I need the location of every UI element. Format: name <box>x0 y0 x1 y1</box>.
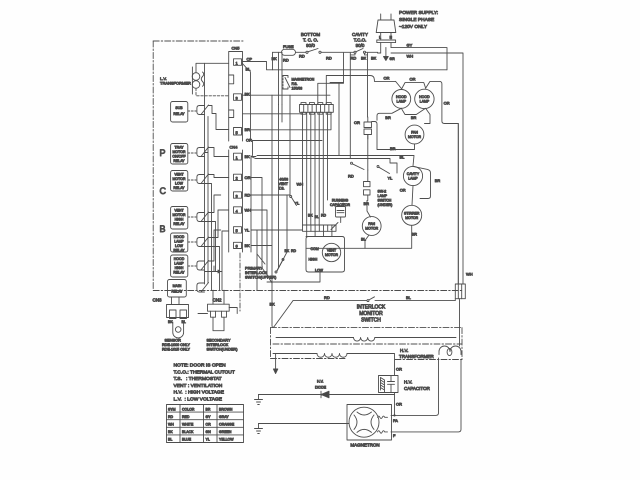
hood lamp 1 <box>392 90 411 109</box>
wire into interlock monitor <box>272 301 293 328</box>
svg-text:HOOD: HOOD <box>174 257 185 261</box>
svg-text:RD: RD <box>291 249 297 253</box>
junction FA <box>393 414 395 416</box>
svg-text:H.V.: H.V. <box>317 380 324 384</box>
svg-text:YL: YL <box>295 201 301 206</box>
svg-text:OR: OR <box>245 175 251 180</box>
wire slot4 to strip1 <box>243 113 303 115</box>
CN4 pin 2 <box>234 174 242 180</box>
svg-text:T.C.O.: T.C.O. <box>354 38 367 43</box>
HV dashdot left <box>270 328 272 359</box>
svg-text:OR: OR <box>206 423 212 427</box>
svg-text:MONITOR: MONITOR <box>359 311 383 317</box>
wire YL cn4-5 horizontal <box>251 230 303 291</box>
connector 2pin hood feed <box>364 117 372 139</box>
hood lamp 2 <box>415 89 434 108</box>
cavity lamp L3 <box>403 166 422 185</box>
svg-text:SWITCH: SWITCH <box>378 199 392 203</box>
svg-text:BK: BK <box>245 92 251 97</box>
svg-text:VENT: VENT <box>327 249 337 253</box>
CN5 slot 4 <box>229 110 234 118</box>
chassis arrow ground <box>273 354 277 374</box>
svg-text:GN: GN <box>206 430 212 434</box>
long wire y155.5 <box>257 156 414 167</box>
hood high relay contact <box>197 261 220 274</box>
svg-text:MOTOR: MOTOR <box>405 216 418 220</box>
svg-text:MOTOR: MOTOR <box>365 227 378 231</box>
connector strip CN1 <box>300 103 334 115</box>
interlock monitor switch blade <box>367 297 375 302</box>
wire OR cn4-2 horizontal <box>251 178 262 269</box>
svg-text:RELAY: RELAY <box>173 249 185 253</box>
CN5 pin 5 <box>234 128 242 136</box>
wire CN5 pin1 to power line <box>243 62 448 70</box>
wire cavity TCO legs <box>350 53 367 159</box>
svg-text:RED: RED <box>182 415 190 419</box>
ground 2 <box>255 424 263 434</box>
svg-text:ORANGE: ORANGE <box>219 423 235 427</box>
svg-text:CAVITY: CAVITY <box>407 172 420 176</box>
dashed link vent high relay <box>188 216 196 218</box>
wire fuse-left vertical pair <box>279 52 283 104</box>
wire OR right bus down <box>457 124 459 285</box>
svg-text:YL: YL <box>245 228 251 233</box>
svg-text:C: C <box>160 186 167 196</box>
fan motor M1 <box>405 125 424 144</box>
svg-text:OR: OR <box>396 367 402 372</box>
svg-text:CAPACITOR: CAPACITOR <box>404 386 431 391</box>
wire fan motor bottom <box>372 122 415 150</box>
HV dashdot top <box>271 327 463 329</box>
fuse F1 <box>282 44 296 56</box>
wires into CN2 top <box>198 290 237 313</box>
HV capacitor C2 <box>379 376 399 393</box>
CN4 pin 4 <box>234 207 242 213</box>
wire connector down <box>367 135 369 171</box>
sensor TH1 <box>173 322 184 338</box>
svg-text:LAMP: LAMP <box>397 100 407 104</box>
svg-text:T.S.: T.S. <box>279 187 285 191</box>
svg-text:HOOD: HOOD <box>396 95 407 99</box>
svg-text:SINGLE PHASE: SINGLE PHASE <box>399 17 434 23</box>
wire BL diagonal from pin1 <box>243 64 251 141</box>
svg-text:DIODE: DIODE <box>315 386 327 390</box>
svg-text:RELAY: RELAY <box>173 159 185 163</box>
wire left verticals down <box>279 105 283 269</box>
chassis dash-dot border left <box>152 41 154 291</box>
wire tray contact to CN4 pin1 <box>208 148 229 157</box>
svg-text:RD: RD <box>299 54 305 59</box>
vent low relay contact <box>197 174 209 184</box>
svg-text:BR: BR <box>390 146 396 151</box>
svg-text:RD: RD <box>321 214 327 218</box>
svg-text:LOW: LOW <box>175 182 184 186</box>
svg-text:MOTOR: MOTOR <box>173 213 186 217</box>
svg-text:BK: BK <box>371 56 377 61</box>
svg-text:GRAY: GRAY <box>219 415 229 419</box>
svg-text:BR: BR <box>412 232 418 237</box>
svg-text:NOTE: DOOR IS OPEN: NOTE: DOOR IS OPEN <box>174 363 227 369</box>
svg-text:LAMP: LAMP <box>174 262 184 266</box>
svg-text:CN5: CN5 <box>232 46 241 51</box>
svg-text:OR: OR <box>384 76 390 81</box>
svg-text:LOW: LOW <box>315 268 324 272</box>
svg-text:RUNNING: RUNNING <box>332 199 349 203</box>
svg-text:RD: RD <box>351 56 357 61</box>
dashed link hood high relay <box>188 265 196 267</box>
tray relay contact <box>197 147 209 157</box>
dashed link sub relay <box>188 110 196 112</box>
40/58 switch blade <box>290 196 297 206</box>
svg-text:BR: BR <box>245 127 251 132</box>
svg-text:HOOD: HOOD <box>174 235 185 239</box>
svg-text:WH: WH <box>466 272 473 277</box>
wire BL extend <box>252 141 254 156</box>
svg-text:SWITCH: SWITCH <box>361 317 381 323</box>
CN4 pin 6 <box>234 242 242 248</box>
svg-text:HOOD: HOOD <box>419 95 430 99</box>
wires main relay to CN3 <box>172 297 180 305</box>
long wire y158.5 <box>251 157 397 174</box>
CN4 pin 5 <box>234 227 242 233</box>
svg-text:BR: BR <box>435 178 441 183</box>
svg-text:BR: BR <box>364 201 370 206</box>
svg-text:FAN: FAN <box>368 222 375 226</box>
right edge connector <box>455 284 465 299</box>
HV dashdot bottom <box>271 359 463 360</box>
svg-text:CN4: CN4 <box>230 144 239 149</box>
HV dashdot mid <box>273 343 462 345</box>
plug ground <box>384 48 396 62</box>
fan motor M3 <box>362 217 381 236</box>
chassis dash-dot border top <box>153 40 243 42</box>
svg-text:OR: OR <box>400 188 406 193</box>
wires strip2 to vent box <box>307 231 332 236</box>
CN2 pin b <box>222 311 227 317</box>
svg-text:VENT: VENT <box>279 182 289 186</box>
wire bundle v5 <box>318 112 320 225</box>
wire fan motor3 top <box>367 201 371 218</box>
svg-text:SWITCH(UPPER): SWITCH(UPPER) <box>245 275 277 280</box>
vent motor M4 <box>322 243 340 261</box>
wire box left of cavity tco <box>330 83 344 156</box>
svg-text:T.C.O.: THERMAL CUTOUT: T.C.O.: THERMAL CUTOUT <box>174 369 235 375</box>
svg-text:LAMP: LAMP <box>378 194 388 198</box>
svg-text:MAGNETRON: MAGNETRON <box>292 78 315 82</box>
ladder vertical d <box>205 247 220 291</box>
wire bundle v2 <box>306 112 308 225</box>
CN5 pin 3 <box>234 94 242 101</box>
wire stirrer bottom <box>306 225 412 248</box>
svg-text:COM: COM <box>311 247 319 251</box>
wires CN2 pins down <box>213 317 224 331</box>
svg-text:WH: WH <box>297 182 304 187</box>
svg-text:T. C. O.: T. C. O. <box>303 38 318 43</box>
svg-text:OR: OR <box>410 77 416 82</box>
svg-text:WHITE: WHITE <box>182 423 194 427</box>
svg-text:BL: BL <box>400 154 406 159</box>
svg-text:SWITCH(UNDER): SWITCH(UNDER) <box>207 348 239 352</box>
svg-text:RELAY: RELAY <box>171 290 183 294</box>
ladder vertical c <box>205 222 216 272</box>
svg-text:BR: BR <box>411 115 417 120</box>
svg-text:40/58: 40/58 <box>279 178 288 182</box>
svg-text:90/0: 90/0 <box>306 43 315 48</box>
svg-text:OR: OR <box>444 101 450 106</box>
connector CN4 strip <box>229 150 243 252</box>
svg-text:P: P <box>160 148 166 158</box>
wire cavity bottom to stirrer <box>412 186 413 206</box>
interlock monitor wire RD <box>293 300 367 302</box>
sub relay contact <box>197 105 209 115</box>
wire cap bottom to FA <box>394 393 396 416</box>
svg-text:CN2: CN2 <box>213 298 222 303</box>
magnetron F.S. switch <box>283 76 290 90</box>
svg-text:LAMP: LAMP <box>420 100 430 104</box>
wire vent box low exit <box>267 272 320 282</box>
svg-text:MAGNETRON: MAGNETRON <box>350 443 379 448</box>
vent motor high relay K4 <box>171 207 188 230</box>
dashed link hood low relay <box>188 241 196 243</box>
wire BK cn4-1 horizontal <box>251 156 256 253</box>
connector CN5 strip <box>229 52 243 142</box>
svg-text:INTERLOCK: INTERLOCK <box>357 304 386 310</box>
svg-text:RD: RD <box>324 295 330 300</box>
svg-text:OR: OR <box>354 120 360 125</box>
wire bundle v1 <box>302 112 304 225</box>
wire WH plug to right edge <box>378 53 464 284</box>
interlock monitor wire BL <box>375 299 455 301</box>
HV diode D1 <box>321 391 329 398</box>
svg-text:RELAY: RELAY <box>173 112 185 116</box>
wire vent high contact to CN4 pin3 <box>208 195 221 213</box>
wire lamp1 bottom left leg <box>377 108 401 120</box>
lamp switch RD blade <box>348 162 364 178</box>
wire color table <box>167 405 244 443</box>
filament line with coil <box>276 337 456 339</box>
svg-text:H.V. : HIGH VOLTAGE: H.V. : HIGH VOLTAGE <box>174 390 225 396</box>
svg-text:~120V ONLY: ~120V ONLY <box>399 24 428 30</box>
svg-text:SENSOR: SENSOR <box>165 338 182 343</box>
svg-text:L.V. : LOW VOLTAGE: L.V. : LOW VOLTAGE <box>174 396 223 402</box>
vent motor low relay K3 <box>171 171 188 192</box>
wire bundle v4 <box>314 112 316 225</box>
svg-text:RELAY: RELAY <box>173 186 185 190</box>
svg-text:SYM: SYM <box>168 407 176 411</box>
wire bundle v6 <box>322 112 324 213</box>
svg-text:FAN: FAN <box>411 131 418 135</box>
running capacitor C1 <box>331 203 346 230</box>
vent high relay contact <box>197 212 209 222</box>
wire y83 to strip <box>318 53 344 105</box>
L.V. transformer T1 <box>192 67 204 94</box>
cavity TCO switch <box>354 49 366 54</box>
ladder vertical b <box>205 184 212 291</box>
svg-text:OR: OR <box>396 402 402 407</box>
CN2 pin a <box>211 311 216 317</box>
svg-text:FA: FA <box>393 418 398 423</box>
wire RD fan to blade <box>277 195 287 271</box>
svg-text:BR: BR <box>206 407 211 411</box>
svg-text:WH: WH <box>168 423 174 427</box>
bottom TCO switch <box>306 49 321 54</box>
svg-text:BK: BK <box>245 154 251 159</box>
vent motor box <box>306 237 345 273</box>
svg-text:RDE-1015 ONLY: RDE-1015 ONLY <box>162 348 191 352</box>
HV primary line <box>273 353 317 355</box>
svg-text:TRAY: TRAY <box>174 146 184 150</box>
chassis dash-dot vertical near CN2 <box>239 253 241 311</box>
wire GY <box>391 48 447 70</box>
svg-text:OR: OR <box>246 138 252 143</box>
svg-text:HIGH: HIGH <box>175 266 184 270</box>
svg-text:150/63: 150/63 <box>292 87 303 91</box>
wire hood low contact to CN4 pin4 <box>208 210 229 238</box>
svg-text:MOTOR: MOTOR <box>408 135 421 139</box>
svg-text:SECONDARY: SECONDARY <box>207 339 231 343</box>
svg-text:BK: BK <box>245 243 251 248</box>
svg-text:BOTTOM: BOTTOM <box>301 32 320 37</box>
svg-text:BL: BL <box>406 295 412 300</box>
connector CN3 body <box>167 305 189 318</box>
svg-text:H.V.: H.V. <box>404 380 412 385</box>
magnetron circle <box>349 407 379 437</box>
connector strip CN6 <box>303 225 337 231</box>
wire y75.5 strip to hood lamps <box>326 76 395 105</box>
svg-text:YL: YL <box>206 438 210 442</box>
wire transformer mid leg to FA <box>395 358 439 415</box>
svg-text:RELAY: RELAY <box>173 271 185 275</box>
svg-text:BK: BK <box>308 214 313 218</box>
svg-text:90/0: 90/0 <box>356 43 365 48</box>
svg-text:MAIN: MAIN <box>173 284 182 288</box>
svg-text:RD: RD <box>348 174 354 179</box>
HV secondary coil <box>439 346 461 355</box>
wire OR horizontal <box>253 140 323 142</box>
svg-text:RD: RD <box>168 415 174 419</box>
wire sub contact to pin5 <box>208 106 229 130</box>
wire lamp1 top to lamp2 top <box>401 83 425 90</box>
svg-text:BROWN: BROWN <box>219 407 233 411</box>
svg-text:VENT : VENTILATION: VENT : VENTILATION <box>174 383 223 389</box>
svg-text:CAVITY: CAVITY <box>352 32 368 37</box>
wire pin3 long horizontal <box>243 94 331 96</box>
svg-text:LAMP: LAMP <box>408 177 418 181</box>
svg-text:HIGH: HIGH <box>175 218 184 222</box>
svg-text:BL: BL <box>168 438 172 442</box>
wire fuse left down <box>272 52 274 70</box>
svg-text:COLOR: COLOR <box>182 407 195 411</box>
svg-text:INTERLOCK: INTERLOCK <box>207 343 229 347</box>
CN3 pin b <box>180 310 187 319</box>
wire lamp1 bottom to lamp2 bottom <box>401 108 425 114</box>
svg-text:GY: GY <box>407 42 413 47</box>
ladder vertical e <box>221 272 223 291</box>
primary interlock switch blade <box>275 259 284 274</box>
svg-text:GR: GR <box>390 57 396 61</box>
magnetron anode vanes <box>354 412 374 432</box>
svg-text:BL: BL <box>315 215 319 219</box>
svg-text:SUB: SUB <box>175 106 183 110</box>
wire BK plug-left down-left <box>377 51 379 53</box>
svg-text:LAMP: LAMP <box>174 240 184 244</box>
svg-text:BK: BK <box>361 56 367 61</box>
wire into hood lamp1 top <box>396 81 402 88</box>
wire FA into magnetron <box>391 414 395 416</box>
svg-text:GY: GY <box>206 415 212 419</box>
tray motor relay K2 <box>171 144 188 165</box>
ground 1 <box>255 395 263 405</box>
wire BR pin5 horizontal <box>251 112 331 130</box>
hood low relay contact <box>197 237 209 247</box>
sub relay K1 <box>171 102 188 123</box>
lamp switch YL blade <box>377 166 393 181</box>
stirrer motor M2 <box>402 205 422 225</box>
HV dashdot right <box>461 328 463 360</box>
CN4 pin 1 <box>234 153 242 160</box>
chassis dash-dot border bottom <box>153 290 462 292</box>
svg-text:RELAY: RELAY <box>173 222 185 226</box>
wire bundle v3 <box>310 112 312 225</box>
svg-text:VENT: VENT <box>174 173 184 177</box>
svg-text:ON/OFF: ON/OFF <box>172 155 185 159</box>
svg-text:HIGH: HIGH <box>309 258 318 262</box>
svg-text:VENT: VENT <box>174 209 184 213</box>
svg-text:STIRRER: STIRRER <box>404 211 420 215</box>
plug P1 <box>376 14 396 53</box>
wire BK cn4-6 horizontal <box>251 95 272 302</box>
wire fan motor3 bottom <box>365 235 369 248</box>
wire lamp2 top to right bus <box>426 81 459 284</box>
filament coil <box>354 338 375 342</box>
svg-text:RD: RD <box>326 56 332 61</box>
svg-text:BLUE: BLUE <box>182 438 192 442</box>
magnetron filament squiggle F <box>378 431 388 434</box>
svg-text:BR: BR <box>385 115 391 120</box>
svg-text:CP: CP <box>247 57 253 62</box>
svg-text:T.S. : THERMOSTAT: T.S. : THERMOSTAT <box>174 376 222 382</box>
svg-text:GREEN: GREEN <box>219 430 232 434</box>
ladder vertical a <box>202 117 209 284</box>
wire WH cn4-4 horizontal <box>251 210 267 275</box>
wire cavity lamp loop right <box>413 166 431 198</box>
svg-text:LOW: LOW <box>175 244 184 248</box>
svg-text:F.S.: F.S. <box>292 82 298 86</box>
main relay K7 <box>168 280 187 298</box>
svg-text:TRANSFORMER: TRANSFORMER <box>399 354 435 359</box>
diode line <box>259 394 395 396</box>
CN4 pin 3 <box>234 192 242 198</box>
svg-text:H.V.: H.V. <box>400 348 408 353</box>
CN5 pin 1 <box>234 59 242 66</box>
dashed link vent low relay <box>188 179 196 181</box>
magnetron V1 box <box>347 405 392 441</box>
wire transformer top to CN5 pin1 <box>196 63 229 72</box>
hood lamp low relay K5 <box>171 233 188 252</box>
hood lamp high relay K6 <box>171 255 188 277</box>
wire RD vertical mid <box>289 95 291 195</box>
svg-text:BLACK: BLACK <box>182 430 194 434</box>
HV secondary loop circle <box>447 348 452 355</box>
svg-text:BK: BK <box>168 430 173 434</box>
svg-text:YL: YL <box>388 176 394 181</box>
svg-text:WH: WH <box>407 54 414 59</box>
HV primary coil <box>317 354 347 358</box>
wire transformer bottom to CN5 pin3 <box>196 88 229 96</box>
svg-text:RDE-1000 ONLY: RDE-1000 ONLY <box>162 343 191 347</box>
dashed link tray relay <box>188 152 196 154</box>
svg-text:WH: WH <box>245 208 252 213</box>
